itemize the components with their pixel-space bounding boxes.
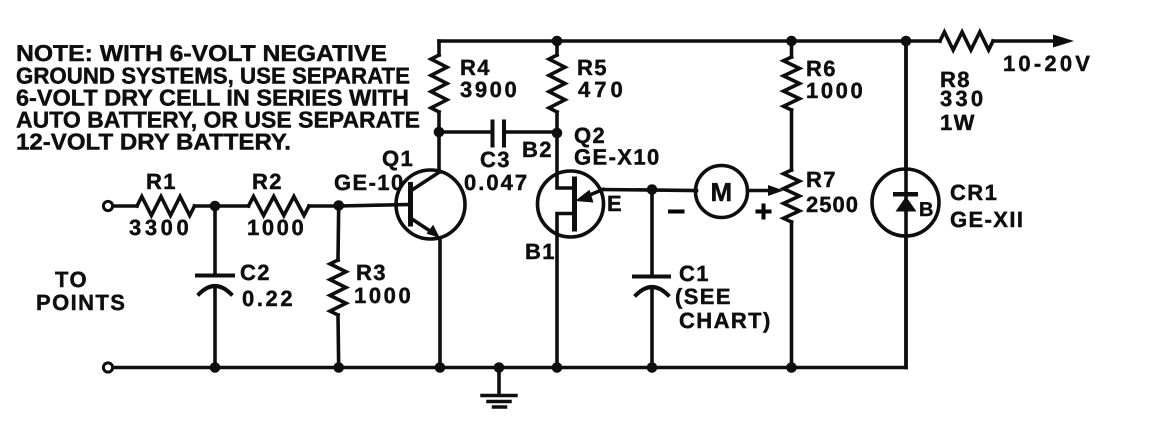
svg-text:GE-10: GE-10 — [334, 170, 405, 195]
svg-text:M: M — [711, 177, 734, 207]
junction node bottom bus ground — [494, 362, 505, 373]
label plus — [756, 210, 772, 214]
svg-text:1000: 1000 — [354, 283, 413, 308]
wire meter to R7 wiper — [748, 189, 771, 193]
junction node R5-C3-Q2 B2 — [552, 128, 563, 139]
svg-text:CHART): CHART) — [679, 308, 772, 333]
terminal input top — [103, 201, 112, 210]
wire emitter to meter — [601, 190, 697, 191]
svg-text:Q1: Q1 — [382, 146, 414, 171]
svg-text:3300: 3300 — [129, 215, 192, 240]
wire left input top — [113, 204, 138, 208]
svg-text:B: B — [919, 199, 935, 221]
resistor R6 — [790, 41, 794, 57]
junction node top bus R5 — [552, 36, 563, 47]
wire R6 to R7 — [790, 110, 794, 170]
transistor Q1 — [396, 170, 465, 239]
resistor R8 — [940, 32, 993, 50]
svg-text:R3: R3 — [356, 260, 387, 285]
junction node meter minus C1 — [647, 184, 658, 195]
arrowhead supply 10-20V — [1053, 35, 1074, 48]
resistor R3 — [336, 206, 340, 260]
svg-text:R7: R7 — [806, 167, 837, 192]
label minus — [668, 210, 685, 214]
meter M1 — [696, 166, 748, 218]
svg-text:1000: 1000 — [806, 78, 865, 103]
wire bottom bus — [113, 366, 907, 370]
junction node R2-R3-Q1 base — [333, 200, 344, 211]
resistor R1 — [137, 197, 195, 216]
svg-text:C3: C3 — [480, 147, 511, 172]
svg-text:R2: R2 — [252, 169, 283, 194]
svg-text:470: 470 — [578, 77, 627, 102]
capacitor C3 — [439, 130, 491, 134]
potentiometer R7 — [784, 170, 800, 222]
arrowhead Q2 emitter — [575, 190, 594, 203]
capacitor C1 — [650, 190, 654, 275]
svg-text:TO: TO — [55, 267, 88, 292]
junction node bottom bus Q1 emitter — [435, 362, 446, 373]
svg-text:2500: 2500 — [806, 192, 859, 217]
junction node R4-C3-Q1 collector — [434, 127, 445, 138]
svg-text:GE-XII: GE-XII — [950, 207, 1024, 232]
junction node bottom bus R7 — [786, 362, 797, 373]
arrowhead Q1 emitter — [427, 225, 440, 238]
svg-text:C2: C2 — [240, 260, 271, 285]
resistor R5 — [555, 41, 559, 55]
svg-text:1000: 1000 — [247, 215, 306, 240]
svg-text:0.22: 0.22 — [242, 286, 295, 311]
svg-text:330: 330 — [940, 86, 986, 111]
svg-text:12-VOLT DRY BATTERY.: 12-VOLT DRY BATTERY. — [16, 129, 291, 155]
svg-text:3900: 3900 — [460, 77, 519, 102]
svg-text:B2: B2 — [522, 137, 553, 162]
junction node top bus CR1-R8 — [901, 36, 912, 47]
junction node top bus R6 — [786, 36, 797, 47]
svg-text:CR1: CR1 — [950, 180, 998, 205]
diode CR1 zener body — [893, 192, 918, 197]
svg-text:(SEE: (SEE — [675, 284, 732, 309]
junction node R1-R2-C2 top — [210, 201, 221, 212]
junction node bottom bus R3 — [333, 362, 344, 373]
svg-text:GE-X10: GE-X10 — [574, 145, 661, 170]
junction node bottom bus C2 — [210, 362, 221, 373]
ground — [497, 368, 501, 395]
svg-text:1W: 1W — [940, 110, 976, 135]
svg-text:E: E — [607, 191, 623, 216]
diode CR1 — [904, 41, 908, 368]
transistor Q2 — [538, 171, 604, 237]
svg-text:B1: B1 — [525, 239, 556, 264]
capacitor C2 — [213, 206, 217, 274]
wire top bus — [439, 39, 940, 43]
svg-text:R1: R1 — [146, 169, 177, 194]
junction node bottom bus C1 — [647, 362, 658, 373]
terminal input bottom — [103, 363, 112, 372]
svg-text:0.047: 0.047 — [464, 170, 529, 195]
svg-text:POINTS: POINTS — [36, 290, 126, 315]
arrowhead R7 wiper — [768, 185, 784, 196]
svg-text:C1: C1 — [679, 261, 710, 286]
junction node bottom bus Q2 B1 — [552, 362, 563, 373]
resistor R4 — [437, 41, 441, 55]
svg-text:10-20V: 10-20V — [1003, 51, 1093, 76]
resistor R2 — [249, 197, 310, 216]
